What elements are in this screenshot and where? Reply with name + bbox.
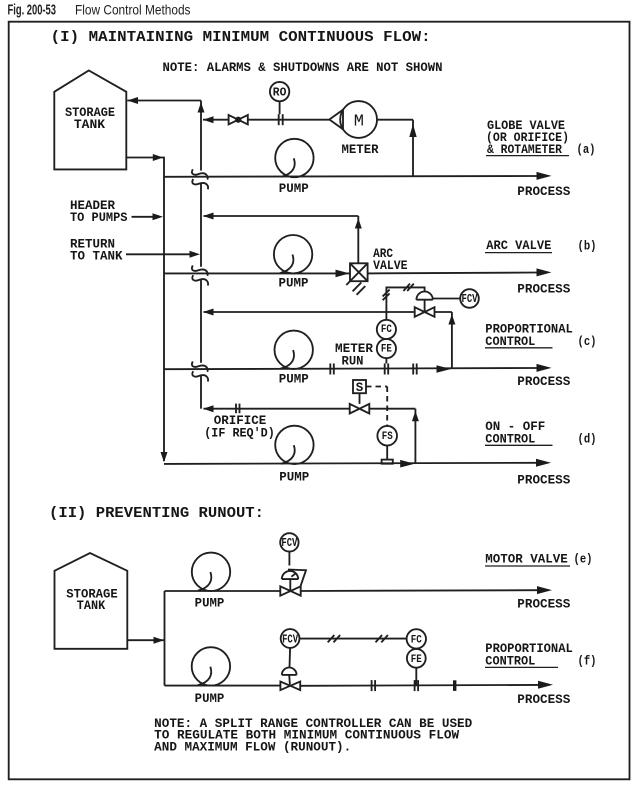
pump P2 (274, 235, 312, 273)
svg-text:& ROTAMETER: & ROTAMETER (487, 143, 562, 157)
wire FS stem (386, 446, 388, 460)
svg-text:FE: FE (411, 654, 422, 666)
svg-text:CONTROL: CONTROL (485, 432, 535, 446)
svg-text:MOTOR VALVE: MOTOR VALVE (485, 553, 568, 567)
wire row e pump line (165, 589, 538, 592)
pointer return to tank (126, 253, 190, 255)
svg-text:PROCESS: PROCESS (517, 375, 570, 389)
orifice thick f3 (453, 680, 456, 691)
arrow left row c return (203, 309, 214, 316)
svg-text:PROCESS: PROCESS (517, 473, 570, 487)
motor valve e actuator (282, 570, 306, 592)
wire signal S to FS dashed (366, 387, 387, 426)
valve d on-off (350, 404, 370, 414)
svg-text:PUMP: PUMP (279, 470, 309, 484)
arrow into tank1 (127, 97, 138, 104)
instrument FCV e (280, 533, 298, 551)
arrow process a (537, 172, 552, 180)
svg-text:PUMP: PUMP (195, 692, 225, 706)
wire section II header vertical (164, 591, 166, 686)
instrument RO (270, 82, 289, 101)
wire tank1 inlet (127, 100, 201, 102)
control valve f actuator (282, 668, 297, 685)
svg-text:AND MAXIMUM FLOW (RUNOUT).: AND MAXIMUM FLOW (RUNOUT). (154, 740, 351, 754)
pump P6 (192, 647, 230, 685)
note split range (154, 717, 472, 755)
wire FE f stem (415, 668, 417, 686)
orifice pair c2 (385, 364, 389, 375)
wire tank2 outlet (127, 639, 164, 641)
svg-text:PROCESS: PROCESS (517, 185, 570, 199)
svg-text:CONTROL: CONTROL (485, 335, 535, 349)
svg-text:(e): (e) (574, 553, 593, 567)
storage tank 2 (55, 553, 128, 649)
instrument FC f (407, 629, 426, 648)
orifice plate row a (279, 114, 283, 125)
arrow left row b return (203, 213, 214, 220)
heading c proportional control (485, 323, 597, 349)
heading a globe valve (486, 119, 596, 157)
arrow up riser a (409, 124, 416, 137)
instrument FC c (377, 320, 396, 339)
wire FE stem c (385, 358, 387, 363)
wire row c pump line (164, 368, 538, 369)
orifice pair c3 (413, 364, 417, 375)
svg-text:M: M (354, 113, 364, 132)
pointer header to pumps (132, 216, 154, 218)
break crossing a (192, 169, 208, 189)
orifice pair c1 (330, 364, 334, 375)
arc valve (346, 263, 367, 295)
solenoid S box (353, 380, 366, 395)
svg-text:TANK: TANK (74, 118, 106, 132)
arrow mid row c (437, 365, 451, 373)
instrument FS (377, 426, 397, 446)
svg-text:RO: RO (273, 85, 287, 99)
arrow up row b riser (355, 218, 362, 228)
svg-text:(IF REQ'D): (IF REQ'D) (204, 426, 275, 440)
return header vertical (200, 101, 202, 409)
svg-text:PROCESS: PROCESS (517, 283, 570, 297)
wire row b return line (204, 215, 359, 217)
svg-text:PROCESS: PROCESS (517, 597, 570, 611)
svg-text:Flow Control Methods: Flow Control Methods (75, 2, 191, 18)
control valve c (415, 292, 435, 317)
svg-text:(f): (f) (578, 655, 597, 669)
wire meter line (203, 119, 413, 121)
svg-text:PROCESS: PROCESS (517, 693, 570, 707)
label return to tank (70, 237, 123, 263)
instrument FCV f (281, 629, 300, 648)
svg-text:Fig. 200-53: Fig. 200-53 (8, 3, 57, 19)
arrow mid row d (400, 460, 414, 468)
arrow into arc valve (336, 270, 350, 278)
wire S stem (359, 393, 361, 404)
wire row b pump line (164, 272, 538, 275)
pump P4 (275, 426, 313, 464)
svg-text:(d): (d) (578, 432, 597, 446)
rotameter cone (329, 110, 343, 130)
wire signal FC to valve c (383, 284, 425, 320)
arrow up return header top (198, 102, 205, 112)
wire row f pump line (165, 684, 539, 687)
pump P1 (275, 139, 313, 177)
storage tank 1 (54, 71, 126, 170)
arrow left row d return (203, 405, 214, 412)
orifice pair f1 (372, 680, 376, 691)
break crossing b (192, 266, 208, 286)
wire RO stem (279, 101, 281, 114)
control valve f body (280, 682, 300, 691)
svg-text:(II) PREVENTING RUNOUT:: (II) PREVENTING RUNOUT: (49, 505, 264, 522)
svg-text:FCV: FCV (281, 536, 298, 550)
svg-text:PUMP: PUMP (195, 597, 225, 611)
wire FCV f stem (289, 648, 292, 668)
arrow process b (537, 268, 552, 276)
svg-text:FC: FC (381, 324, 392, 336)
heading b arc valve (485, 239, 597, 254)
arrow process c (537, 364, 552, 372)
svg-text:TO TANK: TO TANK (70, 249, 123, 263)
wire signal FCV to FC f (300, 635, 407, 642)
svg-text:PUMP: PUMP (279, 372, 309, 386)
svg-text:VALVE: VALVE (373, 259, 407, 273)
svg-text:RUN: RUN (342, 354, 364, 368)
arrow left at return header row a (203, 116, 214, 123)
wire row c return line (204, 312, 452, 369)
label orifice if reqd (204, 414, 275, 440)
svg-text:METER: METER (342, 143, 379, 157)
orifice pair f2 (415, 680, 419, 691)
instrument FE f (407, 649, 426, 668)
svg-text:TANK: TANK (77, 599, 106, 613)
heading d on-off control (485, 420, 597, 446)
label meter run (335, 342, 373, 368)
svg-text:NOTE: ALARMS & SHUTDOWNS ARE N: NOTE: ALARMS & SHUTDOWNS ARE NOT SHOWN (163, 61, 443, 75)
orifice pair d (236, 404, 240, 414)
arrow up row c riser (448, 314, 455, 324)
svg-text:FC: FC (411, 634, 422, 646)
flow element tab d (382, 460, 393, 464)
globe valve V1 (229, 115, 248, 124)
svg-text:ARC VALVE: ARC VALVE (486, 239, 551, 253)
arrow right tank1 outlet (153, 154, 163, 161)
instrument FE c (377, 339, 396, 358)
break crossing c (192, 362, 208, 382)
heading f proportional control (485, 642, 597, 669)
svg-text:PUMP: PUMP (279, 276, 309, 290)
heading e motor valve (485, 553, 593, 567)
wire FCV e stem (288, 552, 290, 566)
wire tank1 outlet (126, 158, 164, 462)
arrow process f (538, 681, 553, 689)
arrow up row d riser (412, 411, 419, 421)
svg-text:(c): (c) (578, 335, 597, 349)
pump P5 (192, 553, 230, 591)
label header to pumps (70, 199, 128, 225)
wire row d return line (204, 409, 416, 464)
arrow process d (536, 459, 551, 467)
svg-text:(a): (a) (577, 143, 596, 157)
arrow right tank2 outlet (154, 637, 165, 644)
arrow process e (537, 586, 552, 594)
pump P3 (275, 331, 313, 369)
svg-text:TO PUMPS: TO PUMPS (70, 211, 128, 225)
label arc valve small (373, 247, 407, 273)
svg-text:(b): (b) (578, 240, 597, 254)
wire row d pump line (164, 463, 538, 464)
svg-text:PUMP: PUMP (279, 182, 309, 196)
wire row b riser (357, 216, 359, 263)
motor valve e body (280, 586, 300, 595)
wire row a pump line (164, 175, 538, 178)
svg-text:FCV: FCV (462, 292, 479, 306)
wire row a riser to meter line (412, 120, 414, 177)
svg-text:S: S (356, 381, 364, 395)
svg-text:FS: FS (382, 431, 393, 443)
svg-text:CONTROL: CONTROL (485, 654, 535, 668)
instrument FCV c (433, 289, 479, 308)
svg-text:FE: FE (381, 343, 392, 355)
meter M (340, 101, 377, 138)
svg-text:FCV: FCV (282, 632, 299, 646)
arrow down pump header bottom (161, 452, 168, 462)
svg-text:(I) MAINTAINING MINIMUM CONTIN: (I) MAINTAINING MINIMUM CONTINUOUS FLOW: (51, 29, 431, 46)
